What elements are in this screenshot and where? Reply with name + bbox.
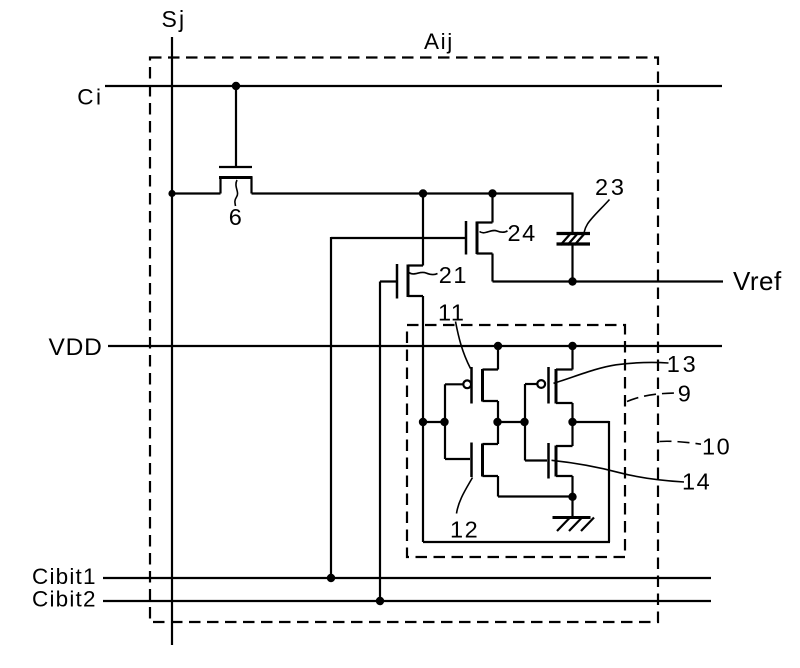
svg-text:23: 23 — [595, 174, 627, 200]
svg-text:Ci: Ci — [77, 84, 103, 109]
svg-text:11: 11 — [438, 300, 465, 326]
svg-text:10: 10 — [702, 434, 731, 460]
svg-text:24: 24 — [508, 220, 537, 246]
svg-text:Aij: Aij — [424, 29, 454, 54]
svg-text:13: 13 — [667, 351, 699, 377]
svg-text:12: 12 — [450, 517, 479, 543]
svg-text:6: 6 — [229, 204, 244, 230]
svg-text:Cibit2: Cibit2 — [32, 587, 97, 612]
svg-text:VDD: VDD — [49, 334, 103, 361]
svg-text:9: 9 — [678, 381, 693, 407]
svg-text:Sj: Sj — [162, 6, 187, 32]
svg-text:14: 14 — [682, 469, 711, 495]
svg-text:Cibit1: Cibit1 — [32, 564, 97, 589]
svg-text:Vref: Vref — [733, 266, 782, 296]
svg-text:21: 21 — [439, 262, 468, 288]
